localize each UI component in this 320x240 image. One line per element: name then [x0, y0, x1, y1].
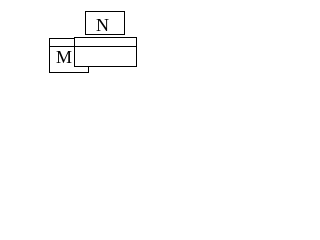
front window title divider	[74, 46, 137, 47]
label M	[56, 48, 72, 66]
front window (blank, overlapping M)	[74, 37, 137, 67]
label N	[96, 16, 109, 34]
window M (behind)	[49, 38, 89, 73]
box N	[85, 11, 125, 35]
window M title divider	[49, 46, 89, 47]
